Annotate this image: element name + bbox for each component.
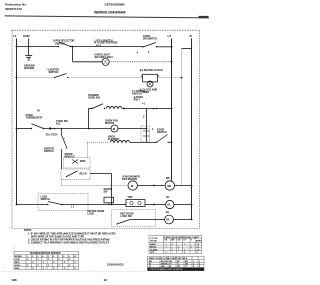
svg-text:X: X [74,262,76,264]
svg-text:3. CONNECT TO A PROPERLY GROUN: 3. CONNECT TO A PROPERLY GROUNDED AND PO… [28,242,109,245]
svg-text:3.3: 3.3 [197,247,200,249]
bake element coil [106,106,122,108]
svg-text:X: X [43,262,45,264]
switch S4 on row D [92,104,103,109]
svg-text:X: X [53,268,55,270]
notes block [24,228,116,244]
svg-text:4 1: 4 1 [142,103,146,106]
svg-text:LOCK: LOCK [88,213,95,216]
switch S5 thermostat [32,124,44,129]
svg-text:9: 9 [69,256,71,258]
svg-text:GY: GY [169,263,172,265]
vertical D-E junction riser [88,109,90,129]
svg-text:SWITCH: SWITCH [132,93,142,96]
wire row E to riser [118,128,147,130]
switch S7 in lock box [48,202,62,205]
wire row G to lamp [145,204,166,206]
svg-text:OVEN VALVE AMPERAGE CHART: OVEN VALVE AMPERAGE CHART [164,236,200,239]
wire row G from L1 [17,204,48,206]
svg-text:YL: YL [177,263,180,265]
svg-text:0: 0 [184,252,185,254]
svg-text:MODULE: MODULE [65,155,76,158]
svg-text:3: 3 [143,116,145,119]
wire N branch jog [182,48,192,50]
svg-text:X: X [27,259,29,261]
lamp oven light [102,58,109,65]
wire N bus [191,39,193,220]
svg-text:2 MOTOR BAKE IGNITOR BROIL: 2 MOTOR BAKE IGNITOR BROIL [150,268,184,271]
switch S2 on row A [143,43,156,48]
wire L2 bus [171,39,173,181]
svg-text:1186: 1186 [11,279,17,282]
svg-text:(FRAME): (FRAME) [24,67,34,70]
svg-text:M: M [113,127,116,131]
svg-text:+: + [64,138,66,141]
wire row D [89,108,93,110]
svg-text:A 2 3: A 2 3 [96,44,102,47]
svg-text:MAX: MAX [15,267,20,270]
svg-text:RED: RED [161,266,166,268]
svg-text:X: X [64,268,66,270]
header rule [5,16,210,18]
svg-text:GND: GND [23,34,31,38]
svg-text:M: M [131,184,134,188]
svg-text:WHITE: WHITE [161,263,168,265]
svg-text:OFF: OFF [150,252,155,254]
svg-text:7: 7 [58,256,60,258]
svg-text:X: X [64,262,66,264]
ignitor switch drop [61,129,63,136]
svg-text:1: 1 [166,244,167,246]
svg-text:L1: L1 [13,34,17,38]
TOD contacts box [112,204,127,206]
svg-text:SWITCH: SWITCH [49,71,59,74]
spark module box [61,149,63,169]
clock assembly [141,74,159,87]
right table 1 [149,235,202,253]
svg-text:3: 3 [193,263,194,265]
svg-text:SB: SB [167,184,171,188]
svg-text:TO LATCH: TO LATCH [46,134,58,137]
svg-text:SWITCH: SWITCH [157,131,167,134]
svg-text:OR: OR [178,239,181,241]
svg-text:6: 6 [199,266,200,268]
right table 2 [148,256,205,270]
wire row A [17,46,59,48]
switch S6 on row F [157,135,168,143]
ignitor box [141,126,150,142]
header publication text [5,3,27,11]
svg-text:1: 1 [27,256,29,258]
svg-text:316000023: 316000023 [107,262,124,266]
svg-text:6: 6 [53,256,55,258]
svg-text:8: 8 [63,256,65,258]
svg-text:X: X [74,268,76,270]
svg-text:5: 5 [193,266,194,268]
wire row E mid [44,128,89,130]
svg-text:1: 1 [178,249,179,251]
switch S8 in door lock box [117,220,130,225]
broil element coil [110,140,130,142]
svg-text:5995271742: 5995271742 [5,7,22,11]
svg-text:1: 1 [178,247,179,249]
svg-text:N.O.: N.O. [56,122,61,125]
svg-text:X: X [43,268,45,270]
svg-text:BR: BR [172,239,175,241]
right table 1 cell marks [165,239,203,254]
lock switch box [38,194,88,211]
svg-text:1: 1 [172,249,173,251]
svg-text:0: 0 [197,252,198,254]
vertical to row G [111,174,113,205]
svg-text:SPEED: SPEED [15,256,23,258]
lamp OL [166,200,174,208]
svg-text:1: 1 [191,247,192,249]
svg-text:WIRE COLOR CODE CHART REF: WIRE COLOR CODE CHART REF NO A [149,257,188,260]
svg-text:1 2: 1 2 [71,206,75,208]
dashed chassis line row [61,180,63,186]
svg-text:1: 1 [172,244,173,246]
svg-text:MOD: MOD [80,161,86,163]
svg-text:X: X [48,259,50,261]
svg-text:LOW: LOW [15,259,20,261]
svg-text:TOD: TOD [127,196,132,199]
svg-text:FAN MOTOR: FAN MOTOR [122,178,137,181]
svg-text:DL: DL [166,211,170,214]
left table column header marks [27,255,77,270]
svg-text:BROIL: BROIL [150,247,157,249]
perforation dotted line [2,270,146,272]
svg-text:OL: OL [166,196,170,199]
svg-text:1: 1 [166,247,167,249]
svg-text:MODE: MODE [151,240,158,242]
wire row D to L2 [122,108,172,110]
svg-text:SW AND LIGHT: SW AND LIGHT [95,56,114,59]
svg-text:2: 2 [148,51,150,54]
svg-text:AMPS: AMPS [196,239,202,242]
wire row B drop [72,47,74,62]
svg-text:GY: GY [183,239,186,241]
svg-text:ELEMENT: ELEMENT [108,138,120,141]
svg-text:X: X [27,265,29,267]
svg-text:X: X [32,262,34,264]
svg-text:CLEAN: CLEAN [150,248,158,251]
svg-text:3.3: 3.3 [197,244,200,246]
svg-text:1: 1 [184,249,185,251]
svg-text:DR SWITCH: DR SWITCH [143,37,157,40]
lamp SB [165,181,174,190]
svg-text:3: 3 [37,256,39,258]
left bottom table [14,251,79,269]
heater component above row G [104,197,114,203]
svg-text:2: 2 [152,128,154,131]
svg-text:X: X [38,259,40,261]
ground symbol [25,55,32,57]
svg-text:2: 2 [32,256,34,258]
switch S1 on row A [59,42,71,47]
svg-text:DL: DL [166,218,170,222]
svg-text:X: X [38,265,40,267]
svg-text:L2: L2 [168,34,172,38]
svg-text:OR: OR [185,263,188,265]
svg-text:WIRING DIAGRAM: WIRING DIAGRAM [94,10,126,14]
wire GND drop [28,39,30,56]
switch S3 on row C [55,74,67,78]
wire row F [130,142,156,144]
svg-text:MOTOR: MOTOR [105,122,114,125]
svg-text:BK: BK [165,239,168,241]
svg-text:BAKE: BAKE [150,243,157,246]
svg-text:SWITCH: SWITCH [41,198,51,201]
svg-text:X: X [69,265,71,267]
svg-text:BLOWER MOTOR SPEEDS: BLOWER MOTOR SPEEDS [30,252,61,255]
wire row C after clock [159,77,181,79]
svg-text:X: X [48,265,50,267]
svg-text:N: N [190,34,192,38]
ignitor riser [146,109,148,142]
svg-text:10: 10 [104,278,108,282]
wire row F dashed west [87,142,109,144]
wire row B [73,61,103,63]
wire ignitor dashed drop [87,143,89,158]
svg-text:RELAY: RELAY [80,173,88,176]
svg-text:4A: 4A [37,110,40,113]
wire L1 bus [16,39,18,205]
svg-text:V: V [191,239,193,241]
svg-text:0: 0 [166,252,167,254]
relay box [61,169,90,180]
svg-text:1: 1 [184,244,185,246]
svg-text:MED: MED [15,262,20,264]
wire neutral dashed vertical [181,49,183,186]
schematic dashed border [12,30,200,228]
svg-text:10: 10 [74,256,77,258]
svg-text:4: 4 [137,51,139,54]
svg-text:GEF350SBWA: GEF350SBWA [105,3,126,7]
right table 2 cell marks [161,260,201,268]
wire row A mid [71,46,143,48]
fold mark [13,244,15,251]
svg-text:X: X [32,268,34,270]
lamp DL [165,215,174,224]
door lock box [112,210,156,227]
svg-text:OL: OL [167,203,171,207]
wire from relay box [90,173,112,175]
svg-text:SWITCH: SWITCH [55,42,65,45]
svg-text:W: W [149,263,151,265]
svg-text:X: X [59,259,61,261]
svg-text:X: X [59,265,61,267]
svg-text:SW: SW [104,191,109,194]
svg-text:⊗ LIGHTED CLOCK: ⊗ LIGHTED CLOCK [140,69,164,72]
svg-text:LOCK SW: LOCK SW [120,215,132,218]
wire row A to L2 [157,46,172,48]
svg-text:3.6: 3.6 [197,249,200,251]
svg-text:5: 5 [48,256,50,258]
wire row E from L1 [17,128,32,130]
motor M1 [89,128,112,130]
wire row C dashed [17,77,55,79]
svg-text:X: X [69,259,71,261]
svg-text:OVEN SW: OVEN SW [88,96,100,99]
svg-text:SB: SB [166,177,170,180]
svg-text:X: X [53,262,55,264]
svg-text:HIGH: HIGH [15,265,21,267]
svg-text:THERMOSTAT: THERMOSTAT [26,117,43,120]
svg-text:SWITCH: SWITCH [44,150,54,153]
motor M2 drawer [128,181,137,190]
wire circle row 1 [137,185,165,187]
svg-text:ONLY: ONLY [134,98,141,101]
